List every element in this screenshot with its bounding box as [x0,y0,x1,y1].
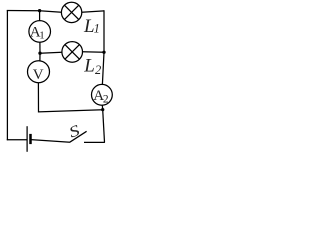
node: junction dot above voltmeter [38,52,41,55]
voltmeter V [28,61,50,84]
wire: right lower vertical (A2 junction down to bottom wire) [103,110,105,143]
node: junction dot below A2 [101,108,104,111]
wire: stub A2 bottom to junction [101,105,103,110]
svg-text:V: V [33,67,44,83]
svg-text:2: 2 [95,63,101,77]
wire: bottom-right horizontal (switch contact to right corner) [84,141,105,143]
svg-text:1: 1 [94,22,100,36]
switch S lever [70,131,87,142]
wire: bottom-left horizontal (left corner to battery) [7,139,27,141]
svg-text:2: 2 [103,94,109,106]
svg-text:L: L [83,56,95,77]
ammeter A1 [29,21,51,43]
wire: top-left horizontal (corner to lamp L1) [7,11,62,13]
svg-text:S: S [66,121,81,141]
battery: long plate (positive) [26,126,28,152]
battery: short thick plate (negative) [29,134,32,144]
label L2 [83,56,101,78]
ammeter A2 [92,84,113,105]
wire: junction to lamp L2 [40,52,62,53]
wire: stub top wire to ammeter A1 [39,11,41,21]
label L1 [83,16,100,37]
wire: battery to switch pivot [31,140,70,143]
node: junction dot lamp L2 right [102,51,105,54]
lamp L1 [61,2,81,22]
wire: left vertical [6,10,8,140]
wire: stub A1 bottom to junction [39,42,41,53]
node: junction dot at A1 top on top wire [38,9,41,12]
wire: stub junction down to voltmeter [39,53,41,61]
lamp L2 [62,42,83,63]
wire: voltmeter bottom down and across to A2 junction [38,83,102,112]
svg-text:1: 1 [39,30,45,42]
wire: right vertical (top corner to ammeter A2) [102,10,104,84]
wire: lamp L2 right to right vertical [83,51,105,54]
wire: top-right horizontal (lamp L1 to top-right corner) [82,11,104,12]
